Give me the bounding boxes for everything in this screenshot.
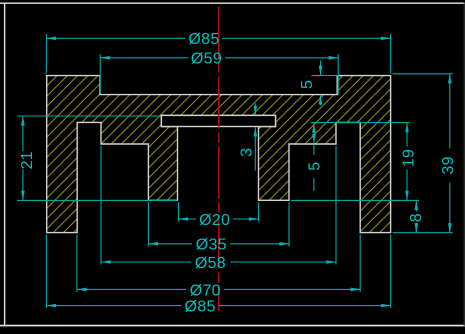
svg-text:5: 5: [307, 162, 324, 171]
ext dia58 right: [335, 146, 337, 265]
drawing frame border top: [0, 2, 465, 4]
arrows dia85 bottom: [46, 304, 56, 308]
ext dia59 left: [99, 54, 101, 93]
ext 39/8 bottom: [393, 232, 453, 234]
ext 19 top: [311, 122, 410, 124]
svg-text:5: 5: [299, 80, 316, 89]
dim 21: [22, 116, 24, 151]
arrows 39: [448, 74, 452, 84]
ext dia85 bottom left: [45, 235, 47, 308]
part cross-section outline with hatch: [47, 76, 391, 233]
dim dia58: [101, 261, 191, 263]
svg-text:3: 3: [239, 148, 256, 157]
dim dia85 bottom: [46, 305, 181, 307]
arrows dia59: [100, 56, 110, 60]
svg-text:21: 21: [19, 151, 36, 169]
dim dia85 top: [46, 37, 185, 39]
svg-text:19: 19: [400, 149, 417, 167]
red centerline: [218, 7, 220, 312]
ext 39 top: [393, 73, 453, 75]
arrowheads: [21, 37, 452, 308]
drawing frame border right: [463, 3, 465, 327]
dim dia35: [148, 243, 192, 245]
dim 3: [254, 104, 256, 116]
ext dia70 left: [76, 235, 78, 292]
svg-text:Ø20: Ø20: [199, 212, 230, 229]
ext 19 bottom / 8 top: [291, 199, 419, 201]
svg-text:Ø85: Ø85: [185, 298, 216, 315]
dim 5 top: [320, 61, 322, 76]
svg-text:39: 39: [440, 156, 457, 174]
dim dia70: [77, 288, 186, 290]
ext dia35 right: [288, 202, 290, 246]
arrows dia35: [148, 242, 158, 246]
svg-text:Ø35: Ø35: [196, 237, 227, 254]
ext dia85 bottom right: [390, 235, 392, 308]
ext dia35 left: [147, 202, 149, 246]
svg-text:Ø58: Ø58: [195, 255, 226, 272]
extension lines: [17, 34, 453, 308]
dim dia59 top: [100, 57, 188, 59]
ext 21 bottom: [17, 199, 178, 201]
dim 19: [406, 123, 408, 147]
arrows dia58: [101, 260, 111, 264]
dim dia20: [179, 218, 197, 220]
dim 5 middle: [313, 123, 315, 143]
dimension lines: [23, 38, 450, 305]
dim 39: [449, 74, 451, 149]
ext dia20 left: [178, 202, 180, 221]
arrows 5 middle (inside): [312, 123, 316, 133]
disc plate (3 thick): [161, 115, 275, 126]
arrows dia20: [179, 217, 189, 221]
dim 8: [415, 200, 417, 211]
drawing frame border left: [4, 3, 6, 327]
ext dia70 right: [359, 235, 361, 292]
arrows 3 (outside): [254, 106, 258, 116]
drawing frame border bottom: [0, 325, 465, 327]
ext dia20 right: [258, 202, 260, 221]
ext dia85 top right: [390, 34, 392, 74]
arrows dia85 top: [46, 37, 56, 41]
arrows dia70: [77, 288, 87, 292]
ext dia85 top left: [45, 34, 47, 74]
svg-text:Ø59: Ø59: [191, 51, 222, 68]
arrows 19: [405, 123, 409, 133]
arrows 5 top (outside): [319, 66, 323, 76]
ext dia58 left: [100, 146, 102, 265]
ext 21 top: [17, 115, 161, 117]
arrows 8: [415, 200, 419, 210]
svg-text:8: 8: [408, 213, 425, 222]
svg-text:Ø85: Ø85: [188, 31, 219, 48]
ext 5top rim level: [312, 75, 339, 77]
svg-text:Ø70: Ø70: [190, 282, 221, 299]
ext dia59 right: [337, 54, 339, 95]
arrows 21: [21, 116, 25, 126]
